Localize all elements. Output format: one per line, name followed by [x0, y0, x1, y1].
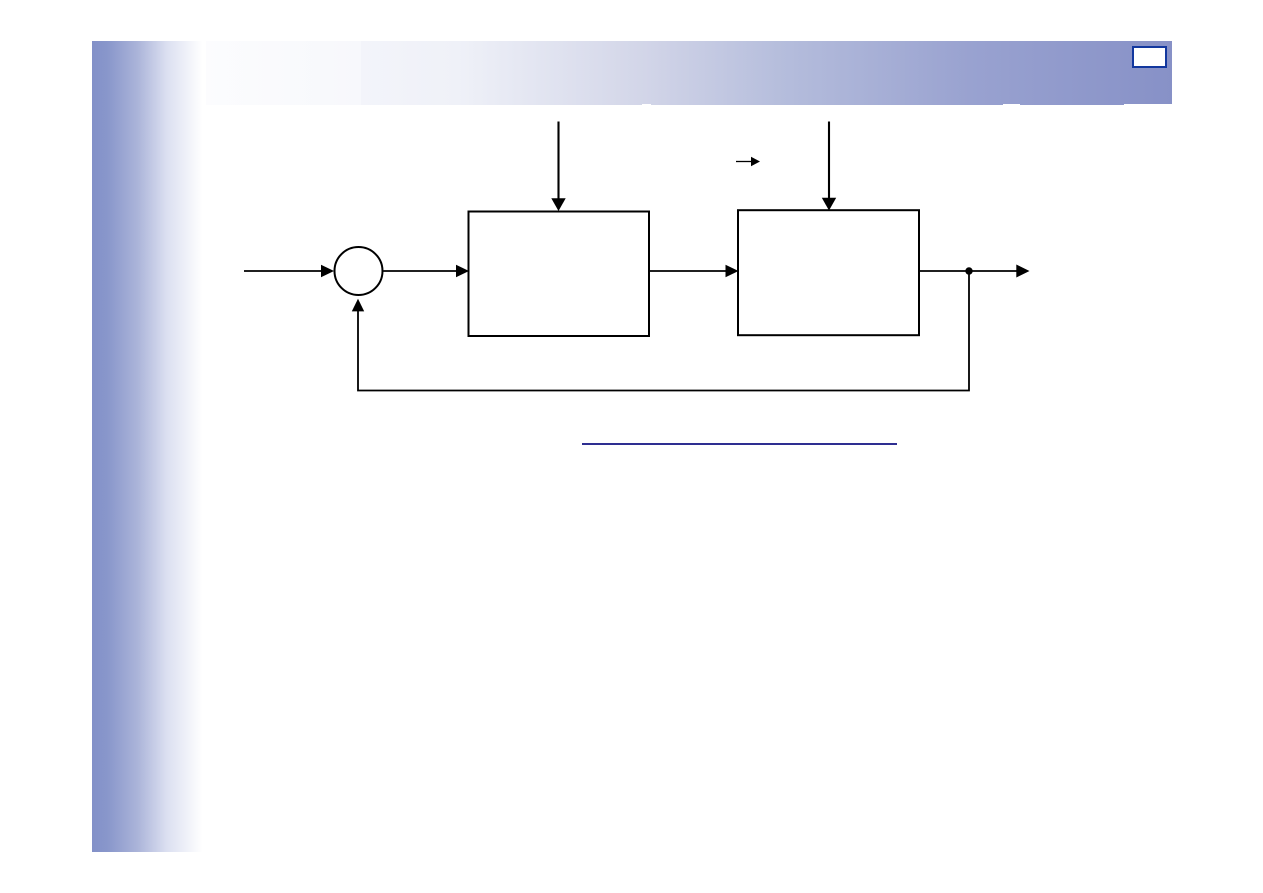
wire box2 to output [919, 270, 1017, 272]
band bottom notch 1 [642, 104, 651, 105]
arrowhead into box1 [456, 265, 469, 278]
left sidebar gradient [92, 41, 206, 852]
arrowhead output [1016, 265, 1029, 278]
node junction dot [965, 267, 972, 274]
summing junction circle [335, 247, 383, 295]
wire box1 to box2 [650, 270, 726, 272]
wire small arrow line [736, 161, 752, 163]
arrowhead into box2 [726, 265, 739, 278]
wire input line [244, 270, 322, 272]
wire down arrow into box1 [557, 122, 559, 200]
wire circle to box1 [384, 270, 458, 272]
top band: main gradient section [361, 41, 1172, 105]
hyperlink underline rule [582, 443, 898, 445]
small slide-number box top right [1132, 46, 1167, 68]
band bottom step right segment [1124, 104, 1172, 105]
top band: light left section [92, 41, 361, 105]
wire feedback path [358, 271, 969, 391]
arrowhead down into box1 top [551, 198, 565, 211]
arrowhead feedback up into circle [352, 299, 364, 312]
arrowhead input [321, 265, 334, 278]
block box1 [469, 212, 650, 337]
arrowhead down into box2 top [822, 198, 836, 211]
wire down arrow into box2 [828, 122, 830, 199]
block box2 [738, 210, 919, 335]
band bottom notch 2 [1003, 104, 1020, 105]
arrowhead small arrow [751, 157, 760, 167]
